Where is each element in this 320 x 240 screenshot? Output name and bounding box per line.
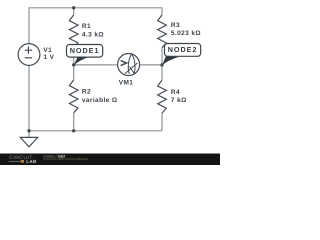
- node junction dot bottom-left: [27, 129, 30, 132]
- wire V1 bottom lead: [28, 65, 30, 130]
- svg-text:NODE2: NODE2: [168, 45, 198, 54]
- svg-text:NODE1: NODE1: [70, 46, 100, 55]
- svg-text:5.023 kΩ: 5.023 kΩ: [171, 30, 201, 37]
- footer bar: [0, 154, 220, 166]
- node NODE2 flag: [162, 44, 201, 66]
- wire R1 top lead: [73, 8, 75, 15]
- svg-text:R1: R1: [82, 23, 91, 30]
- node NODE1 junction dot: [72, 63, 75, 66]
- svg-text:R3: R3: [171, 22, 180, 29]
- resistor R1: [69, 15, 78, 48]
- node junction dot bottom-mid: [72, 129, 75, 132]
- svg-text:R4: R4: [171, 89, 180, 96]
- wire bottom rail: [29, 130, 162, 132]
- svg-text:1 V: 1 V: [43, 54, 54, 61]
- wire VM1 right lead: [139, 64, 162, 66]
- voltage source V1 body: [18, 44, 40, 66]
- node NODE1 flag: [67, 45, 103, 66]
- svg-text:7 kΩ: 7 kΩ: [171, 97, 187, 104]
- resistor R2: [69, 80, 78, 113]
- svg-text:LAB: LAB: [26, 159, 37, 164]
- wire R1 bottom to R2 top: [73, 48, 75, 80]
- logo CircuitLab: [9, 155, 38, 164]
- svg-text:R2: R2: [82, 89, 91, 96]
- node NODE2 junction dot: [160, 63, 163, 66]
- wire R4 bottom lead: [161, 113, 163, 131]
- ground: [28, 131, 30, 138]
- wire R3 bottom to R4 top: [161, 48, 163, 80]
- wire top rail with left and right drops: [29, 8, 162, 44]
- voltmeter VM1 body: [118, 54, 140, 76]
- node A junction dot top: [72, 6, 75, 9]
- svg-text:variable Ω: variable Ω: [82, 97, 118, 104]
- svg-text:http://circuitlab.com/c6np34ua: http://circuitlab.com/c6np34uafy: [43, 157, 88, 161]
- svg-text:4.3 kΩ: 4.3 kΩ: [82, 31, 104, 38]
- wire R2 bottom lead: [73, 113, 75, 131]
- wire VM1 left lead: [74, 64, 118, 66]
- resistor R4: [158, 80, 167, 113]
- resistor R3: [158, 15, 167, 48]
- svg-text:VM1: VM1: [119, 79, 134, 86]
